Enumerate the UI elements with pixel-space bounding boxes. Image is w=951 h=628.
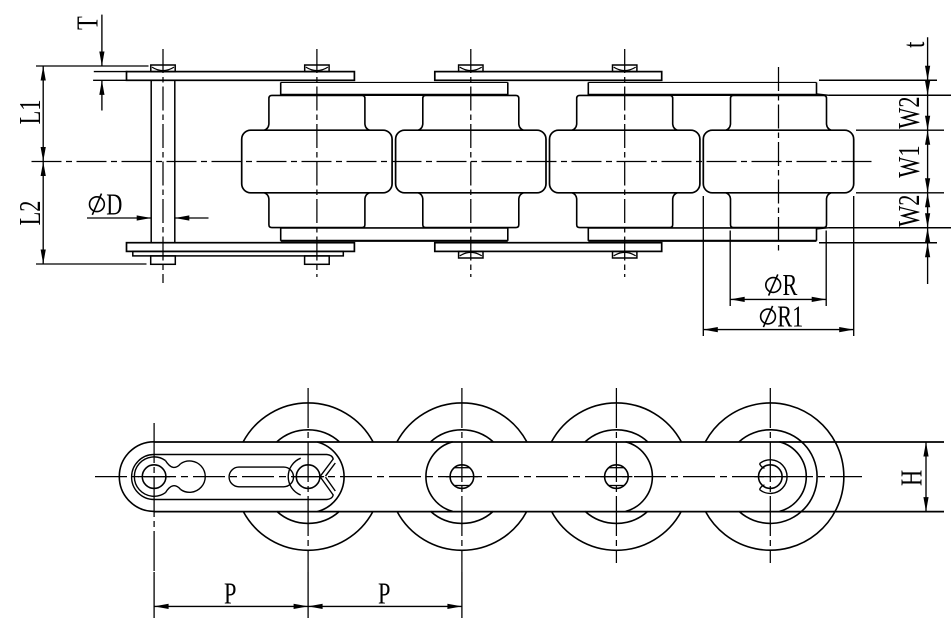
svg-text:P: P: [378, 576, 390, 610]
pin5 clip ring: [760, 460, 788, 494]
bushing bottom piece pin5: [726, 193, 831, 228]
chain centerline (top view): [32, 161, 873, 163]
svg-text:D: D: [106, 187, 122, 221]
clip middle slot: [229, 467, 293, 487]
side roller pin4 bottom arc: [552, 511, 682, 550]
clip outer right cap arc: [317, 442, 344, 512]
pin 2 bottom end: [305, 256, 330, 264]
outer plate pins3-4 bottom: [435, 243, 662, 252]
side pin2 crosshair: [292, 476, 324, 478]
pin 3 top head: [459, 65, 483, 72]
P dim line 2: [308, 604, 462, 609]
clip inner left cap: [132, 455, 155, 500]
dia-R dim line: [730, 297, 826, 302]
side bushing pin4 top arc: [585, 430, 648, 442]
T dim lower stem: [99, 80, 104, 110]
label W2 lower: [891, 195, 925, 227]
svg-text:P: P: [224, 576, 236, 610]
side pin2 circle: [296, 465, 320, 489]
dog-bone bulb arc: [181, 461, 206, 492]
clip inner top line: [154, 454, 327, 456]
clip outer left cap: [119, 442, 154, 512]
outer plate pins1-2 top: [127, 72, 355, 81]
side pin1 centerline+ext: [153, 423, 155, 618]
dog-bone neck top: [165, 461, 180, 468]
clip pin2 hole arc: [288, 458, 300, 495]
dia-R1 ext line left: [702, 196, 704, 336]
side bushing pin2 bottom arc: [277, 511, 340, 523]
plate bottom edge extension left: [93, 79, 127, 81]
side roller pin3 bottom arc: [397, 511, 527, 550]
clip inner bottom line: [154, 499, 327, 501]
roller R1: [242, 130, 392, 193]
cut line shoulder level top right: [829, 94, 951, 96]
plate end cap at pin5 (right): [780, 442, 807, 512]
L1 dim line: [41, 66, 46, 162]
label dia-R1: [761, 299, 804, 333]
plate top edge extension left: [94, 71, 128, 73]
side pin4 centerline: [615, 388, 617, 563]
inner plate pins4-5 top: [588, 82, 816, 95]
side view centerline: [95, 476, 862, 478]
side pin3 circle: [450, 465, 474, 489]
L2 bottom extension line: [36, 263, 147, 265]
label H: [894, 470, 928, 486]
roller R4: [703, 130, 853, 193]
pin 2 top head: [305, 65, 329, 72]
side pin2 centerline+ext: [307, 388, 309, 618]
svg-text:W1: W1: [891, 145, 925, 177]
bushing top piece pin2: [264, 95, 369, 130]
svg-text:L1: L1: [12, 100, 46, 125]
clip prong top: [321, 455, 336, 477]
side roller pin2 top arc: [243, 403, 373, 442]
side bushing pin5 arc: [739, 430, 817, 524]
W2 ext line top (roller top): [856, 129, 944, 131]
cut line shoulder level bottom right: [829, 227, 951, 229]
dia-R1 dim line: [703, 327, 853, 332]
T dim upper stem: [99, 15, 104, 66]
bushing bottom piece pin2: [264, 193, 369, 228]
dog-bone pin1 hole arc: [134, 457, 165, 496]
side pin3 crosshair: [446, 476, 478, 478]
roller R2: [396, 130, 546, 193]
outer plate pins3-4 top: [435, 72, 662, 81]
roller R3: [550, 130, 700, 193]
plate end cap at pin3 (left): [426, 442, 453, 512]
dia-R ext line left: [729, 231, 731, 307]
dog-bone neck bottom: [165, 486, 180, 493]
dia-D left stem: [87, 215, 151, 220]
side pin1 crosshair: [138, 476, 170, 478]
side pin5 centerline: [769, 388, 771, 563]
outer plate pins1-2 bottom: [127, 243, 355, 252]
pin 2 centerline: [316, 49, 318, 277]
dia-R1 ext line right: [853, 196, 855, 336]
W1 ext line bottom (roller bottom): [856, 192, 944, 194]
side roller pin5 arc: [705, 403, 843, 550]
side bushing pin3 top arc: [431, 430, 494, 442]
svg-text:H: H: [894, 470, 928, 486]
plate bottom edge side view: [154, 511, 944, 513]
label P right: [378, 576, 390, 610]
svg-text:L2: L2: [12, 201, 46, 226]
side pin3 chords: [454, 468, 469, 486]
bushing top piece pin3: [418, 95, 523, 130]
side pin1 circle: [142, 465, 166, 489]
label T: [70, 16, 104, 30]
cut step diagonal top right: [817, 94, 830, 95]
side bushing pin4 bottom arc: [585, 511, 648, 523]
inner plate pins4-5 bottom: [588, 228, 816, 241]
pin 4 centerline: [624, 49, 626, 277]
label dia-D: [90, 187, 123, 221]
cut line outer-bottom level top right: [819, 79, 937, 81]
cut line outer-top level bottom right: [819, 242, 937, 244]
inner plate pins2-3 bottom: [281, 228, 508, 241]
svg-text:t: t: [896, 41, 930, 48]
bushing top piece pin5: [726, 95, 831, 130]
pin 1 top head: [151, 65, 175, 72]
pin 1 body: [151, 80, 175, 242]
label W1: [891, 145, 925, 177]
cut step diagonal bottom right: [817, 228, 830, 229]
dia-D right stem: [175, 215, 209, 220]
plate end cap at pin4 (right): [626, 442, 653, 512]
bushing bottom piece pin4: [572, 193, 677, 228]
svg-text:R1: R1: [777, 299, 803, 333]
pin 5 centerline: [778, 67, 780, 254]
label L2: [12, 201, 46, 226]
label L1: [12, 100, 46, 125]
pin 3 centerline: [470, 49, 472, 277]
clip prong bottom: [321, 477, 336, 499]
pin 1 bottom end: [151, 256, 176, 264]
inner plate pins2-3 top: [281, 82, 508, 95]
label dia-R: [766, 268, 798, 302]
side bushing pin3 bottom arc: [431, 511, 494, 523]
bushing bottom piece pin3: [418, 193, 523, 228]
side pin3 centerline+ext: [461, 388, 463, 618]
dia-R ext line right: [825, 231, 827, 307]
plate top edge side view: [154, 441, 944, 443]
side pin5 crosshair: [754, 476, 786, 478]
pin 4 bottom head: [613, 251, 637, 258]
H dim line: [923, 442, 928, 512]
T extension line (head top): [36, 65, 149, 67]
side roller pin4 top arc: [552, 403, 682, 442]
label W2 upper: [891, 96, 925, 128]
svg-text:W2: W2: [891, 195, 925, 227]
right dimension stem with arrows: [925, 37, 930, 284]
side bushing pin2 top arc: [277, 430, 340, 442]
svg-text:R: R: [783, 268, 798, 302]
pin 4 top head: [613, 65, 637, 72]
svg-text:W2: W2: [891, 96, 925, 128]
side pin4 crosshair: [600, 476, 632, 478]
clip plate edge view: [133, 251, 343, 256]
pin 3 bottom head: [459, 251, 483, 258]
side roller pin2 bottom arc: [243, 511, 373, 550]
pin 1 centerline: [162, 49, 164, 283]
side roller pin3 top arc: [397, 403, 527, 442]
bushing top piece pin4: [572, 95, 677, 130]
side pin4 circle: [605, 465, 629, 489]
label P left: [224, 576, 236, 610]
side pin5 circle: [759, 465, 783, 489]
L2 dim line: [41, 162, 46, 265]
svg-text:T: T: [70, 16, 104, 30]
side pin4 chords: [609, 468, 624, 486]
label t: [896, 41, 930, 48]
P dim line 1: [154, 604, 308, 609]
